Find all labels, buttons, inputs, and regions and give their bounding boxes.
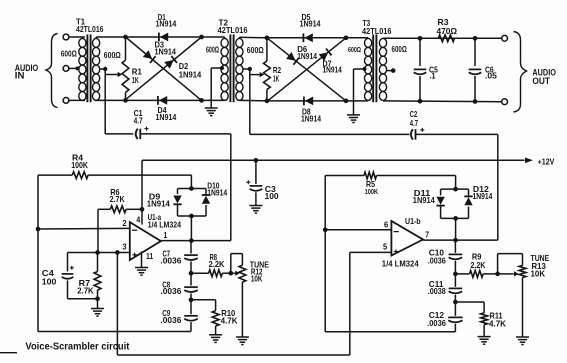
svg-text:+12V: +12V — [538, 157, 555, 167]
svg-text:C2: C2 — [410, 110, 418, 119]
svg-text:1N914: 1N914 — [207, 189, 227, 198]
svg-text:1N914: 1N914 — [156, 19, 177, 28]
svg-text:100: 100 — [265, 192, 279, 201]
svg-text:600Ω: 600Ω — [104, 51, 121, 60]
svg-text:600Ω: 600Ω — [206, 46, 219, 55]
svg-text:2.7K: 2.7K — [110, 195, 125, 204]
svg-text:4: 4 — [136, 215, 140, 224]
svg-text:2.2K: 2.2K — [471, 261, 486, 270]
svg-text:1N914: 1N914 — [155, 48, 177, 57]
svg-text:1/4 LM324: 1/4 LM324 — [382, 259, 419, 268]
svg-text:OUT: OUT — [532, 76, 550, 87]
svg-text:1N914: 1N914 — [413, 196, 435, 205]
svg-text:1K: 1K — [273, 75, 279, 84]
svg-text:.0036: .0036 — [160, 287, 181, 296]
svg-text:4.7K: 4.7K — [221, 316, 238, 325]
svg-text:42TL016: 42TL016 — [362, 27, 392, 36]
svg-text:1: 1 — [164, 231, 168, 240]
svg-text:42TL016: 42TL016 — [76, 25, 104, 34]
svg-text:1N914: 1N914 — [323, 66, 343, 75]
svg-text:100: 100 — [42, 278, 57, 287]
svg-text:2.2K: 2.2K — [209, 260, 225, 269]
svg-text:R3: R3 — [438, 18, 449, 27]
svg-text:600Ω: 600Ω — [247, 46, 264, 55]
svg-text:470Ω: 470Ω — [437, 27, 458, 36]
svg-text:Voice-Scrambler circuit: Voice-Scrambler circuit — [25, 341, 130, 352]
svg-text:.1: .1 — [430, 71, 436, 80]
svg-text:7: 7 — [425, 231, 429, 240]
svg-text:100K: 100K — [71, 161, 88, 170]
svg-text:5: 5 — [383, 242, 388, 251]
svg-text:2.7K: 2.7K — [77, 287, 94, 296]
svg-text:1N914: 1N914 — [300, 20, 321, 29]
svg-text:U1-b: U1-b — [405, 217, 421, 226]
svg-text:6: 6 — [384, 221, 389, 230]
svg-text:.0036: .0036 — [427, 319, 446, 328]
svg-text:.0038: .0038 — [428, 287, 446, 296]
svg-text:IN: IN — [15, 70, 25, 81]
svg-text:2: 2 — [122, 219, 127, 228]
svg-text:1N914: 1N914 — [301, 115, 321, 124]
svg-text:3: 3 — [122, 243, 127, 252]
svg-text:4.7: 4.7 — [410, 119, 419, 128]
svg-text:10K: 10K — [531, 270, 546, 279]
svg-text:1N914: 1N914 — [147, 199, 170, 208]
svg-text:600Ω: 600Ω — [392, 45, 408, 54]
svg-text:.0036: .0036 — [160, 316, 181, 325]
svg-text:.0036: .0036 — [160, 256, 181, 265]
svg-text:42TL016: 42TL016 — [218, 26, 248, 35]
svg-text:1N914: 1N914 — [473, 192, 493, 201]
svg-text:11: 11 — [146, 252, 154, 261]
svg-text:.05: .05 — [485, 71, 497, 80]
svg-text:1N914: 1N914 — [179, 70, 202, 79]
svg-text:10K: 10K — [251, 275, 263, 284]
svg-text:1K: 1K — [132, 76, 139, 85]
svg-text:1/4 LM324: 1/4 LM324 — [148, 221, 182, 230]
svg-text:600Ω: 600Ω — [61, 50, 77, 59]
svg-text:4.7K: 4.7K — [489, 319, 506, 328]
svg-text:1N914: 1N914 — [156, 113, 177, 122]
svg-text:4.7: 4.7 — [134, 116, 143, 125]
svg-text:.0036: .0036 — [428, 257, 446, 266]
svg-text:100K: 100K — [365, 187, 379, 196]
svg-text:1N914: 1N914 — [297, 52, 317, 61]
svg-text:600Ω: 600Ω — [348, 45, 361, 54]
